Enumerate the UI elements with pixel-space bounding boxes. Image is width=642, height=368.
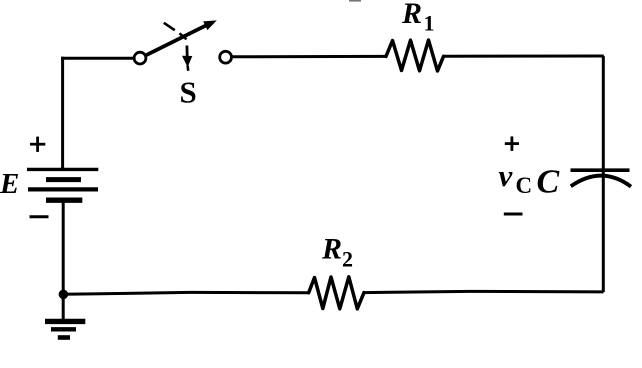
svg-text:C: C bbox=[516, 173, 533, 198]
svg-text:v: v bbox=[499, 158, 514, 193]
svg-text:C: C bbox=[537, 164, 560, 201]
svg-text:E: E bbox=[0, 168, 19, 200]
svg-text:R: R bbox=[321, 233, 342, 266]
svg-text:S: S bbox=[180, 75, 197, 110]
svg-text:2: 2 bbox=[342, 247, 353, 272]
svg-text:R: R bbox=[401, 0, 422, 30]
svg-text:1: 1 bbox=[424, 11, 435, 36]
